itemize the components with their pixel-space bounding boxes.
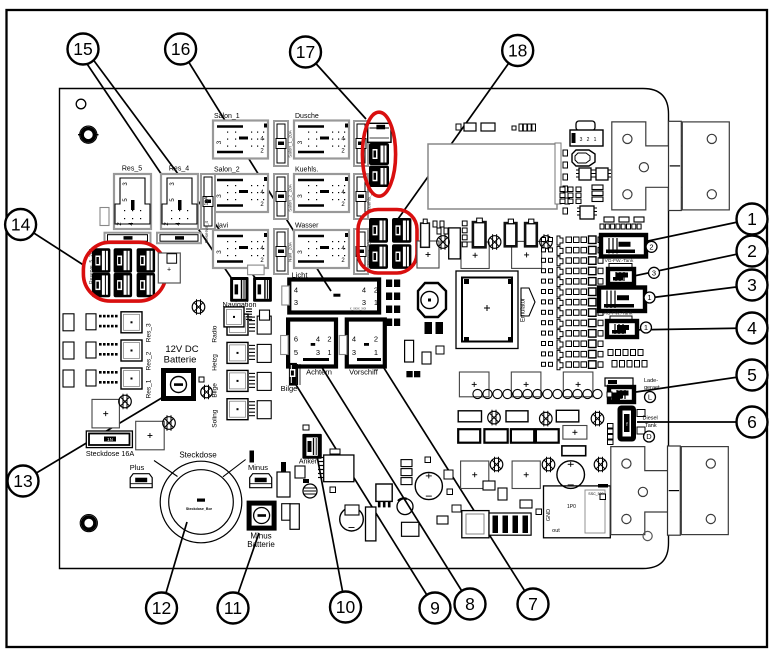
svg-text:3: 3 — [216, 140, 223, 144]
svg-text:5: 5 — [294, 348, 298, 357]
svg-text:4: 4 — [362, 286, 366, 295]
svg-text:3: 3 — [352, 348, 356, 357]
svg-text:17: 17 — [296, 42, 315, 62]
svg-text:2: 2 — [649, 242, 653, 251]
svg-text:Res_3: Res_3 — [146, 323, 153, 342]
svg-text:3: 3 — [747, 275, 757, 295]
svg-text:GND: GND — [546, 509, 552, 521]
svg-text:geraet: geraet — [644, 385, 660, 391]
svg-text:Salon_2: Salon_2 — [214, 167, 240, 174]
svg-text:2: 2 — [374, 335, 378, 344]
svg-text:Lade-: Lade- — [644, 378, 658, 384]
svg-text:4: 4 — [316, 335, 320, 344]
svg-text:3: 3 — [297, 140, 304, 144]
svg-text:3: 3 — [580, 137, 583, 143]
svg-text:5: 5 — [747, 365, 757, 385]
svg-text:x_xxxx_xxx: x_xxxx_xxx — [350, 307, 367, 311]
svg-text:Achtern: Achtern — [306, 368, 332, 377]
svg-text:Salon_1_20A: Salon_1_20A — [288, 129, 293, 158]
svg-text:Navi_20A: Navi_20A — [288, 241, 293, 262]
svg-text:1: 1 — [374, 348, 378, 357]
svg-text:Vorschiff: Vorschiff — [349, 368, 379, 377]
svg-text:Steckdose: Steckdose — [179, 451, 217, 460]
svg-text:14: 14 — [11, 215, 31, 235]
svg-text:6: 6 — [294, 335, 298, 344]
svg-text:16: 16 — [171, 39, 190, 59]
svg-text:1: 1 — [647, 293, 651, 302]
svg-text:3: 3 — [297, 250, 304, 254]
svg-text:Res_5: Res_5 — [122, 166, 142, 173]
svg-text:3: 3 — [294, 298, 298, 307]
svg-text:Minus: Minus — [248, 463, 268, 472]
svg-text:Diesel: Diesel — [643, 416, 658, 422]
svg-text:Bilge: Bilge — [281, 384, 298, 393]
svg-text:12: 12 — [152, 598, 171, 618]
svg-text:3: 3 — [297, 194, 304, 198]
svg-text:out: out — [552, 528, 560, 534]
svg-text:Tank: Tank — [645, 423, 657, 429]
svg-text:Dusche: Dusche — [295, 113, 319, 120]
svg-text:D: D — [646, 432, 652, 441]
svg-text:+: + — [167, 267, 171, 274]
svg-text:3: 3 — [216, 194, 223, 198]
svg-text:3: 3 — [316, 348, 320, 357]
svg-text:7: 7 — [528, 594, 538, 614]
svg-text:Salon_1: Salon_1 — [214, 113, 240, 120]
svg-text:Navi: Navi — [214, 223, 228, 230]
svg-text:3: 3 — [216, 250, 223, 254]
svg-text:4: 4 — [352, 335, 356, 344]
svg-text:13: 13 — [13, 471, 32, 491]
svg-text:Res_2: Res_2 — [146, 351, 153, 370]
svg-text:2: 2 — [327, 335, 331, 344]
svg-text:L: L — [648, 393, 652, 402]
svg-text:9: 9 — [430, 598, 440, 618]
svg-text:1: 1 — [327, 348, 331, 357]
svg-text:1: 1 — [594, 137, 597, 143]
svg-text:2: 2 — [587, 137, 590, 143]
svg-text:Salon_2_20A: Salon_2_20A — [288, 183, 293, 212]
svg-text:6: 6 — [747, 412, 757, 432]
svg-text:12V DC: 12V DC — [165, 344, 198, 355]
svg-text:4: 4 — [747, 318, 757, 338]
svg-text:18: 18 — [508, 41, 527, 61]
svg-text:11: 11 — [224, 598, 242, 618]
svg-text:Batterie: Batterie — [164, 355, 197, 366]
svg-text:Kuehls.: Kuehls. — [295, 167, 318, 174]
svg-text:Res_4: Res_4 — [169, 166, 189, 173]
svg-text:Batterie: Batterie — [247, 540, 275, 549]
svg-text:Radio: Radio — [212, 325, 219, 342]
svg-text:Steckdose 16A: Steckdose 16A — [86, 449, 135, 458]
svg-text:10: 10 — [336, 597, 356, 617]
svg-text:Res_1: Res_1 — [146, 379, 153, 398]
svg-text:1N: 1N — [107, 437, 113, 442]
svg-text:15: 15 — [73, 39, 92, 59]
svg-text:Anker: Anker — [299, 459, 318, 466]
svg-text:Heizg: Heizg — [212, 354, 219, 371]
svg-text:1P0: 1P0 — [567, 504, 576, 510]
svg-text:Soling: Soling — [212, 409, 219, 427]
svg-text:Plus: Plus — [130, 463, 145, 472]
svg-text:2: 2 — [374, 286, 378, 295]
svg-text:Reserve_4: Reserve_4 — [204, 220, 209, 243]
svg-text:4: 4 — [294, 286, 298, 295]
svg-text:1: 1 — [747, 209, 757, 229]
svg-text:3: 3 — [652, 268, 656, 277]
svg-text:2: 2 — [747, 241, 757, 261]
svg-text:Wasser: Wasser — [295, 223, 319, 230]
svg-text:15A: 15A — [204, 196, 210, 206]
svg-text:1: 1 — [644, 323, 648, 332]
svg-text:1: 1 — [374, 298, 378, 307]
svg-text:Steckdose_Bor: Steckdose_Bor — [186, 507, 213, 511]
svg-text:8: 8 — [465, 594, 475, 614]
